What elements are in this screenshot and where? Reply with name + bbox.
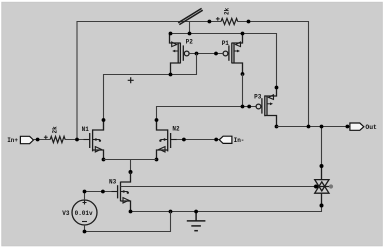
- pin dot clamp left: [314, 185, 318, 189]
- port In-: [219, 136, 232, 143]
- polarity + of R-top: [216, 17, 220, 21]
- svg-text:V3: V3: [62, 210, 70, 217]
- port In+: [20, 136, 33, 143]
- clamp D1 (back-to-back diodes): [314, 166, 331, 206]
- wire: out rail to clamp top: [321, 127, 323, 167]
- wire: ground run: [131, 206, 322, 212]
- svg-text:0.01v: 0.01v: [75, 210, 93, 217]
- transistor N3 (NMOS, gate left): [112, 172, 131, 212]
- junction Out port: [346, 125, 350, 129]
- wire: feedback top rail (Out to In+ node): [77, 22, 309, 140]
- junction R-top left: [208, 20, 212, 24]
- pin dot clamp top: [320, 164, 324, 168]
- wire: VDD rail (P2/P1 sources): [171, 34, 277, 88]
- transistor N2 (NMOS, mirrored, gate right): [157, 120, 177, 160]
- voltage source V3: [72, 200, 97, 225]
- wire: V3 minus bottom rail: [85, 212, 171, 232]
- svg-text:In+: In+: [7, 137, 18, 144]
- pin dot V3 plus: [83, 190, 87, 194]
- svg-text:2k: 2k: [224, 7, 231, 15]
- pin dot P3 gate: [247, 105, 251, 109]
- svg-text:P2: P2: [186, 38, 194, 45]
- pin dot P3 drain: [275, 125, 279, 129]
- transistor P2 (PMOS, mirrored, gate right): [170, 34, 190, 75]
- transistor P3 (PMOS, gate left): [256, 88, 276, 127]
- pin dot N3 drain: [129, 170, 133, 174]
- wire: In+ net: [33, 139, 89, 141]
- clamp side bubble: [329, 184, 333, 188]
- junction P1 drain / P3 gate wire: [241, 105, 245, 109]
- junction clamp riser: [320, 125, 324, 129]
- node + annotation: [128, 77, 134, 83]
- svg-text:N2: N2: [172, 126, 180, 133]
- junction gate rail B: [214, 52, 218, 56]
- pin dot N2 drain: [155, 118, 159, 122]
- pin dot N1 source: [102, 158, 106, 162]
- svg-text:N1: N1: [82, 126, 90, 133]
- svg-text:2k: 2k: [52, 126, 59, 134]
- pin dot N3 gate: [101, 190, 105, 194]
- junction In+ / feedback: [75, 138, 79, 142]
- junction bottom rail riser: [169, 210, 173, 214]
- junction slash-to-rail: [188, 32, 192, 36]
- resistor R-top (value 2k): [221, 18, 238, 24]
- wire: P2/P1 gate rail: [189, 53, 223, 55]
- port Out: [350, 123, 364, 130]
- svg-text:Out: Out: [365, 124, 377, 131]
- pin dot P2 source: [169, 32, 173, 36]
- junction gate rail A: [195, 52, 199, 56]
- junction In+ port: [36, 138, 40, 142]
- wire: V3 plus to N3 gate: [85, 192, 112, 201]
- junction In- port: [214, 138, 218, 142]
- pin dot P1 source: [241, 32, 245, 36]
- junction feedback tap: [307, 125, 311, 129]
- svg-text:In-: In-: [234, 137, 245, 144]
- wire: mirror tie (gate rail to N1 drain): [104, 54, 197, 131]
- pin dot P3 source: [275, 86, 279, 90]
- transistor P1 (PMOS, gate left): [223, 34, 242, 75]
- pin dot N1 drain: [102, 118, 106, 122]
- pin dot N2 source: [155, 158, 159, 162]
- ground symbol: [187, 212, 206, 231]
- transistor N1 (NMOS, gate left): [84, 120, 104, 160]
- wire: P1 drain down to P3 gate: [242, 74, 244, 107]
- wire: output rail: [277, 126, 350, 128]
- pin dot N2 gate: [182, 138, 186, 142]
- svg-text:N3: N3: [109, 179, 117, 186]
- pin dot clamp bottom: [320, 204, 324, 208]
- svg-text:P3: P3: [254, 93, 262, 100]
- slash annotation (chopper mark): [178, 8, 203, 24]
- wire: N3 bulk to clamp: [121, 186, 317, 188]
- junction R-top right: [247, 20, 251, 24]
- wire: slash node to VDD rail: [189, 22, 191, 34]
- junction ground stem: [194, 210, 198, 214]
- resistor R-in (value 2k): [50, 136, 65, 142]
- wire: In- net: [177, 139, 219, 141]
- pin dot V3 minus: [83, 230, 87, 234]
- wire: tail source rail: [104, 160, 157, 173]
- wire: N2 drain to P3 gate: [157, 107, 257, 130]
- svg-text:P1: P1: [222, 40, 230, 47]
- polarity + of R-in: [44, 135, 48, 139]
- pin dot N3 source: [129, 210, 133, 214]
- junction P2 drain: [169, 73, 173, 77]
- pin dot P1 drain: [241, 72, 245, 76]
